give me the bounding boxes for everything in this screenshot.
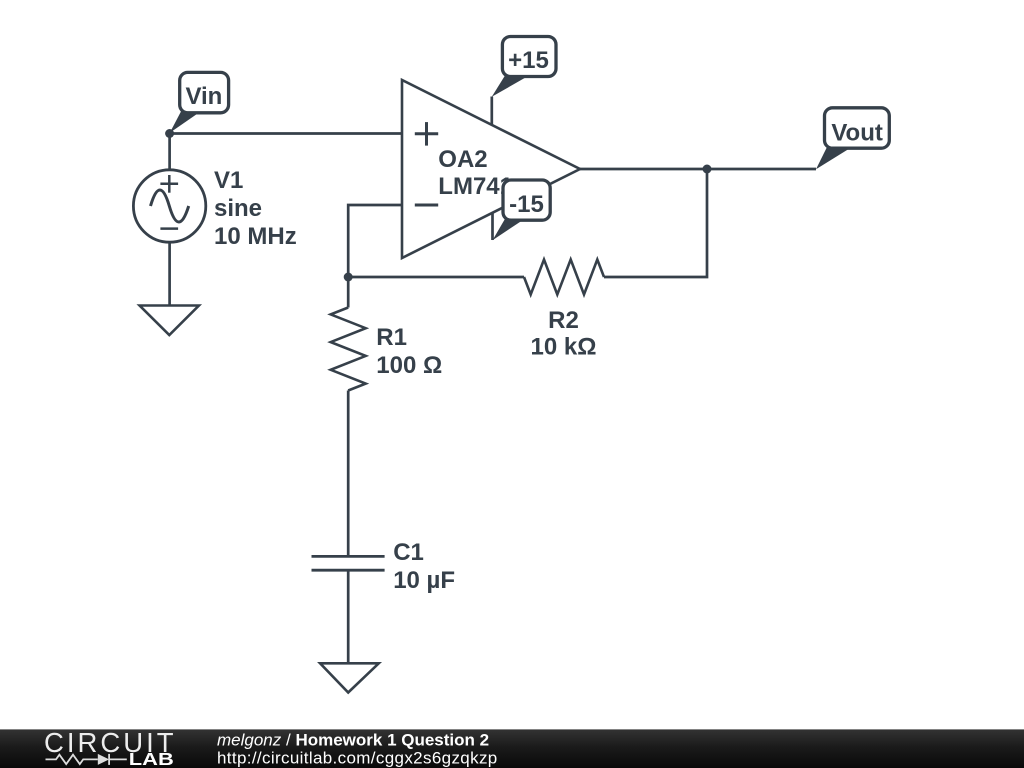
wire Vin node to op-amp + input [170,132,402,135]
op-amp - input symbol [415,204,438,207]
node dot Vin [165,129,174,138]
svg-text:sine: sine [214,195,262,222]
capacitor C1 [312,556,385,570]
resistor R1 [331,308,366,391]
voltage source V1 [133,170,205,242]
svg-text:Vin: Vin [185,83,222,110]
node dot feedback [344,273,353,282]
svg-text:melgonz / Homework 1 Question: melgonz / Homework 1 Question 2 [217,731,489,750]
wire feedback node to R2 left [348,276,524,279]
op-amp + input symbol [415,122,438,146]
wire op-amp output to Vout flag [580,168,816,171]
svg-text:+15: +15 [508,47,549,74]
op-amp OA2 triangle [402,80,580,258]
wire R1 bottom to C1 top plate [347,391,350,557]
flag +15 [492,37,556,97]
svg-text:-15: -15 [509,191,544,218]
flag -15 [493,180,551,240]
logo resistor-diode glyph [46,754,127,765]
wire R2 right to corner and up to output [604,169,707,277]
svg-text:10 MHz: 10 MHz [214,223,297,250]
svg-text:100 Ω: 100 Ω [376,352,442,379]
wire V1 bottom to ground [168,242,171,306]
svg-text:Vout: Vout [831,120,883,147]
svg-text:LAB: LAB [129,750,174,768]
svg-text:http://circuitlab.com/cggx2s6g: http://circuitlab.com/cggx2s6gzqkzp [217,749,498,768]
op-amp power pins [490,97,493,241]
wire op-amp - input to feedback node [348,205,402,277]
node dot output [703,165,712,174]
svg-text:R2: R2 [548,307,579,334]
ground under C1 [320,663,379,692]
svg-text:V1: V1 [214,167,243,194]
op-amp labels [438,146,513,200]
resistor R2 [524,260,604,295]
V1 labels [214,167,297,250]
svg-text:10 kΩ: 10 kΩ [531,334,597,361]
svg-text:OA2: OA2 [438,146,487,173]
svg-text:10 µF: 10 µF [393,567,455,594]
wire Vin node down to V1 top [168,134,171,171]
svg-text:C1: C1 [393,539,424,566]
svg-text:R1: R1 [376,324,407,351]
wire feedback node down to R1 top [347,277,350,308]
flag Vin [170,72,229,132]
flag Vout [816,108,889,170]
wire C1 bottom plate to ground [347,570,350,663]
ground under V1 [140,306,199,336]
